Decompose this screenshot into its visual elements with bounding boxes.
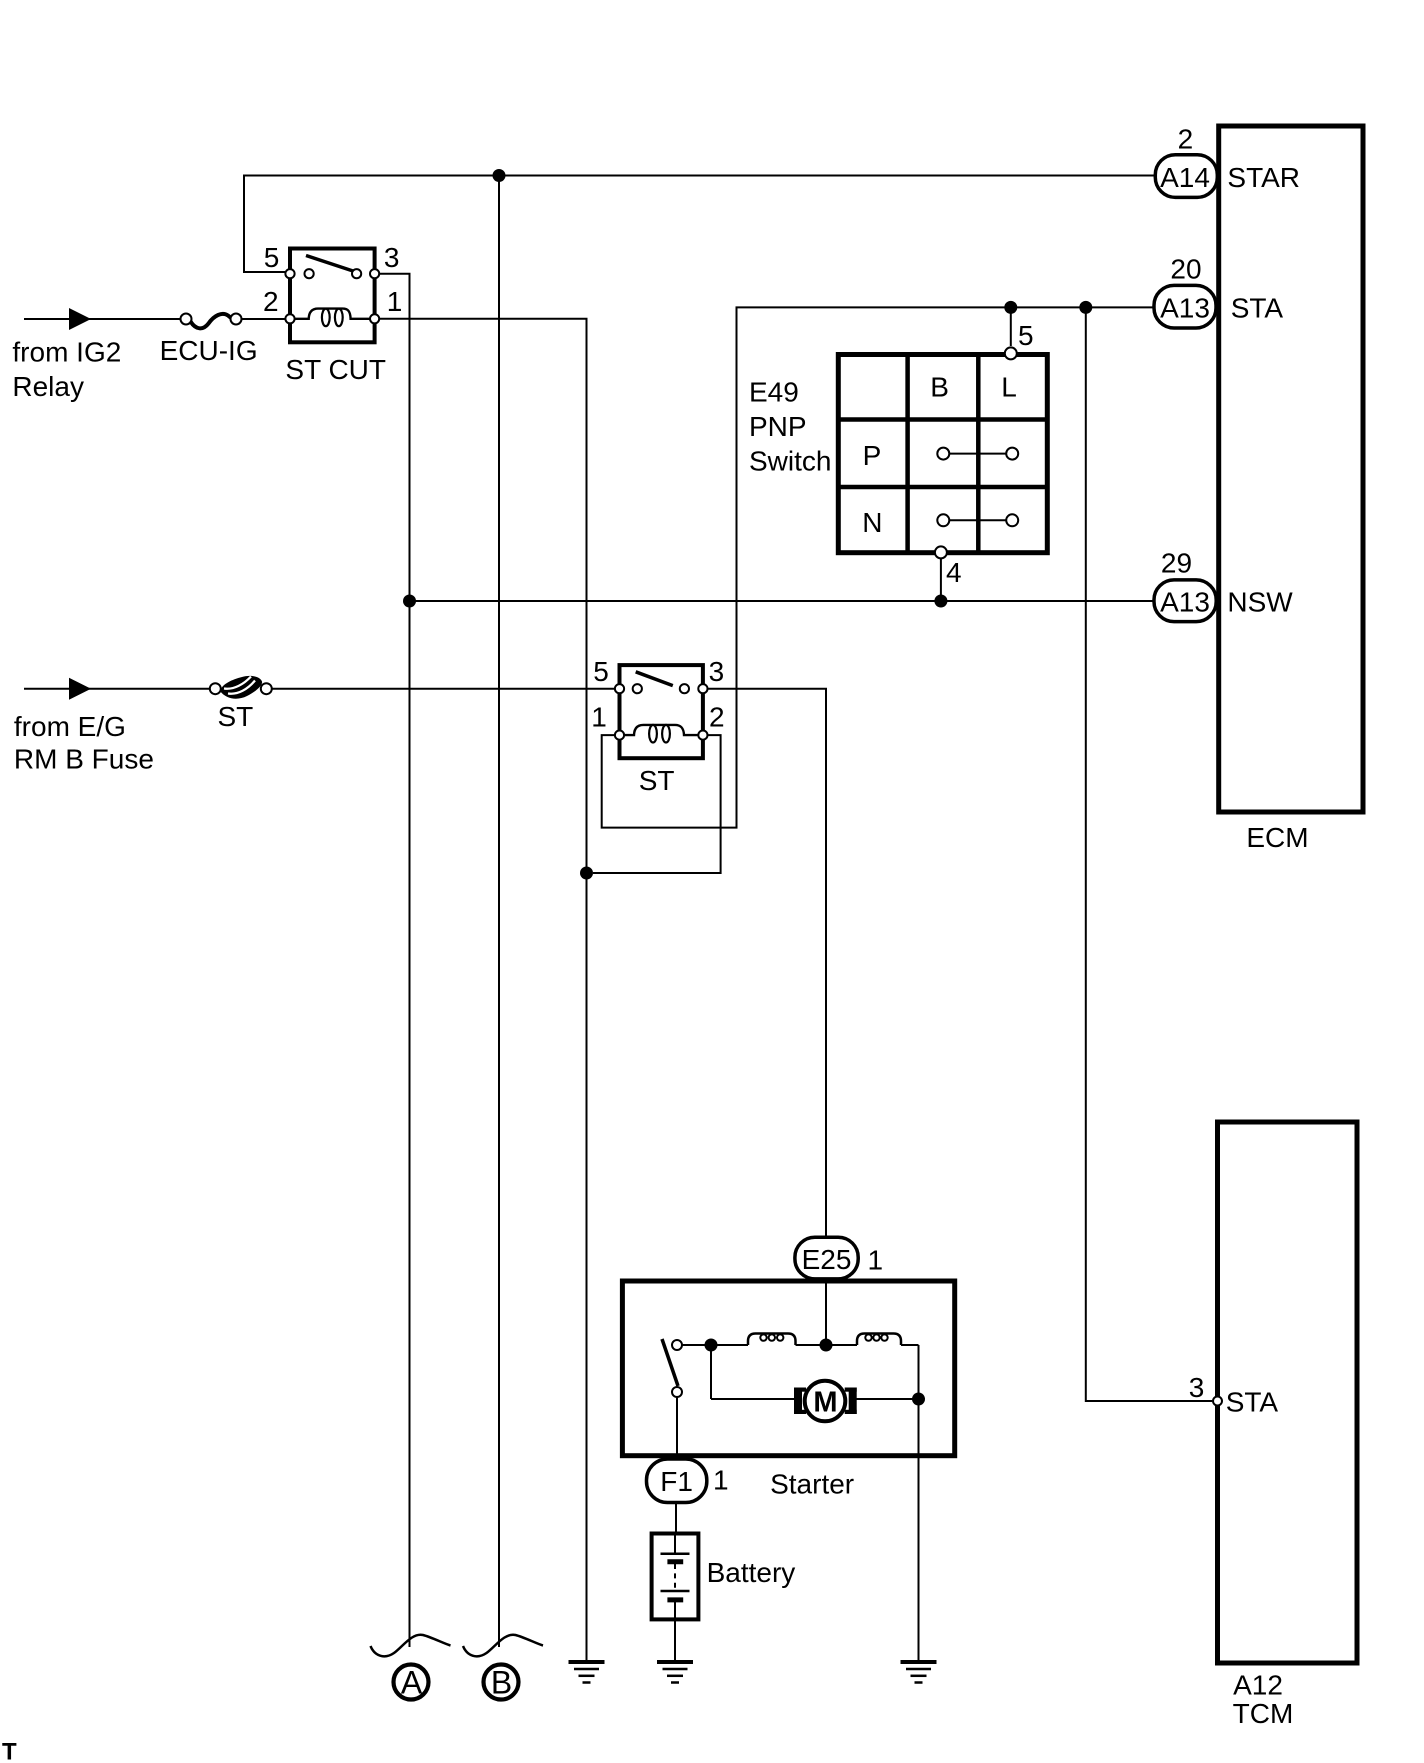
svg-text:3: 3 [709, 656, 725, 687]
connector A13 (ECM STA) [1154, 285, 1216, 328]
contact circle left [305, 269, 314, 278]
node junction ST CUT pin1 net with ST relay pin 2 branch [580, 867, 593, 880]
wire STA net: ECM A13 pin 20 to ST relay pin 1 loop [602, 307, 1154, 827]
pin 4 of PNP switch [935, 546, 947, 558]
node junction STA to TCM drop [1079, 301, 1092, 314]
switch contact upper [672, 1340, 682, 1350]
svg-text:NSW: NSW [1227, 587, 1293, 618]
grid divider vertical 2 [976, 355, 981, 553]
svg-text:2: 2 [263, 286, 279, 317]
wire motor branch down [710, 1345, 712, 1399]
svg-text:29: 29 [1161, 548, 1192, 579]
battery [652, 1534, 796, 1620]
wire from E/G RM B Fuse input [24, 688, 211, 690]
svg-text:ST CUT: ST CUT [285, 354, 386, 385]
svg-text:A14: A14 [1160, 162, 1210, 193]
pin 1 of ST CUT [370, 314, 379, 323]
svg-text:M: M [813, 1387, 837, 1419]
svg-text:ST: ST [218, 701, 254, 732]
svg-text:5: 5 [593, 656, 609, 687]
grid divider horizontal 1 [838, 417, 1047, 422]
arrow from E/G RM B Fuse [69, 678, 91, 700]
svg-text:B: B [930, 372, 949, 403]
contact pair row P [947, 453, 1008, 455]
svg-text:A13: A13 [1160, 587, 1210, 618]
contact circle right [680, 684, 689, 693]
break symbol above node A [371, 1635, 451, 1657]
svg-text:A: A [401, 1665, 423, 1701]
svg-text:4: 4 [946, 557, 962, 588]
wire battery to ground [674, 1618, 676, 1660]
node A (connector circle A) [394, 1665, 429, 1701]
svg-text:1: 1 [591, 702, 607, 733]
ECM box [1219, 126, 1363, 812]
connector A14 (ECM STAR) [1155, 155, 1217, 198]
PNP switch E49 grid [749, 307, 1047, 601]
wire ST CUT pin 3 down to NSW line and circle A [375, 274, 410, 1647]
relay ST CUT [263, 242, 402, 385]
svg-text:3: 3 [1189, 1372, 1205, 1403]
svg-text:Battery: Battery [707, 1557, 796, 1588]
svg-text:2: 2 [1178, 124, 1194, 155]
grid divider vertical 1 [905, 355, 910, 553]
pin 2 of ST relay [698, 731, 707, 740]
wire right drop to ground [918, 1345, 920, 1660]
pin 1 of ST relay [615, 731, 624, 740]
motor M [794, 1388, 806, 1392]
fuse ST (fusible link) [210, 676, 272, 699]
svg-text:2: 2 [709, 702, 725, 733]
node junction motor branch [705, 1339, 718, 1352]
switch arm of ST CUT relay [306, 256, 353, 272]
ground (battery) [657, 1662, 693, 1683]
wire switch lower to F1 [676, 1397, 678, 1459]
coil solenoid pull-in [748, 1334, 796, 1346]
svg-text:STA: STA [1226, 1387, 1279, 1418]
svg-text:A13: A13 [1160, 293, 1210, 324]
pin 5 of PNP switch [1005, 347, 1017, 359]
svg-text:5: 5 [264, 242, 280, 273]
wire ST relay pin 2 down to junction [593, 735, 721, 873]
wire drop to circle B [498, 176, 500, 1648]
svg-text:1: 1 [387, 286, 403, 317]
svg-text:STAR: STAR [1227, 162, 1300, 193]
svg-text:B: B [491, 1665, 512, 1701]
wire F1 to battery [675, 1504, 677, 1535]
node junction E25 drop [820, 1339, 833, 1352]
svg-text:Relay: Relay [12, 371, 84, 402]
svg-text:L: L [1001, 372, 1017, 403]
svg-text:T: T [2, 1739, 17, 1763]
wire switch to coils [682, 1344, 748, 1346]
svg-text:20: 20 [1170, 254, 1201, 285]
svg-text:5: 5 [1018, 320, 1034, 351]
wire STA drop to TCM pin 3 [1086, 307, 1212, 1401]
pin 3 of ST relay [698, 684, 707, 693]
wire fuse to ST CUT pin 2 [242, 318, 289, 320]
svg-text:1: 1 [868, 1245, 884, 1276]
svg-text:PNP: PNP [749, 411, 807, 442]
svg-text:TCM: TCM [1233, 1698, 1294, 1729]
coil of ST relay [624, 725, 698, 735]
svg-text:1: 1 [713, 1465, 729, 1496]
coil of ST CUT relay [295, 309, 370, 319]
pin 3 of TCM (STA) [1213, 1397, 1222, 1406]
svg-text:ECM: ECM [1246, 822, 1308, 853]
svg-text:ECU-IG: ECU-IG [160, 335, 258, 366]
arrow from IG2 Relay [69, 308, 91, 330]
wire NSW net: ECM A13 pin 29 line [410, 600, 1155, 602]
wire PNP pin 5 up to STA junction [1010, 307, 1012, 346]
node junction NSW at circle A drop [403, 595, 416, 608]
connector E25 [795, 1237, 858, 1279]
svg-text:E49: E49 [749, 376, 799, 407]
svg-text:F1: F1 [660, 1466, 693, 1497]
ground (starter motor) [901, 1662, 937, 1683]
svg-text:N: N [862, 507, 882, 538]
wire between coils [796, 1344, 858, 1346]
node junction STA to PNP pin 5 [1004, 301, 1017, 314]
ground (below ST CUT pin 1 net) [569, 1662, 605, 1683]
pin 5 of ST relay [615, 684, 624, 693]
pin 2 of ST CUT [285, 314, 294, 323]
svg-text:P: P [863, 440, 882, 471]
svg-text:Starter: Starter [770, 1469, 854, 1500]
wire ST relay pin 3 to starter E25 [705, 689, 826, 1238]
coil solenoid hold-in [857, 1334, 901, 1346]
break symbol above node B [463, 1635, 543, 1657]
node B (connector circle B) [484, 1665, 519, 1701]
wire STAR net: ECM A14 pin to ST CUT pin 5 [244, 176, 1155, 273]
svg-text:Switch: Switch [749, 445, 831, 476]
TCM box [1218, 1122, 1358, 1663]
svg-text:from E/G: from E/G [14, 711, 126, 742]
svg-text:from IG2: from IG2 [12, 337, 121, 368]
contact circle right [352, 269, 361, 278]
svg-text:STA: STA [1231, 293, 1284, 324]
svg-text:E25: E25 [802, 1244, 852, 1275]
svg-text:RM B Fuse: RM B Fuse [14, 744, 154, 775]
wire coil to right drop [901, 1344, 919, 1346]
switch arm of ST relay [636, 672, 673, 686]
relay ST [591, 656, 724, 796]
grid divider horizontal 2 [838, 485, 1047, 490]
wire ST fuse to ST relay pin 5 [272, 688, 617, 690]
connector A13 (ECM NSW) [1154, 580, 1216, 622]
node junction motor to right drop [912, 1393, 925, 1406]
wire motor branch to motor [711, 1398, 798, 1400]
wire ST CUT pin 1 right and down to ground [375, 319, 587, 1660]
switch contact lower [672, 1387, 682, 1397]
svg-text:A12: A12 [1233, 1670, 1283, 1701]
connector F1 [647, 1459, 707, 1503]
svg-text:ST: ST [639, 765, 675, 796]
wire from IG2 Relay input [24, 318, 182, 320]
pin 5 of ST CUT [285, 269, 294, 278]
wire PNP pin 4 down to NSW junction [940, 559, 942, 601]
svg-text:3: 3 [384, 242, 400, 273]
Starter unit [622, 1237, 954, 1660]
contact pair row N [947, 519, 1008, 521]
wire motor to right drop [856, 1398, 919, 1400]
node junction on STAR wire (to circle B drop) [493, 169, 506, 182]
contact circle left [633, 684, 642, 693]
node junction NSW at PNP pin 4 [934, 595, 947, 608]
fuse ECU-IG [181, 314, 242, 329]
switch arm [662, 1339, 678, 1386]
wire E25 into starter [825, 1278, 827, 1345]
pin 3 of ST CUT [370, 269, 379, 278]
